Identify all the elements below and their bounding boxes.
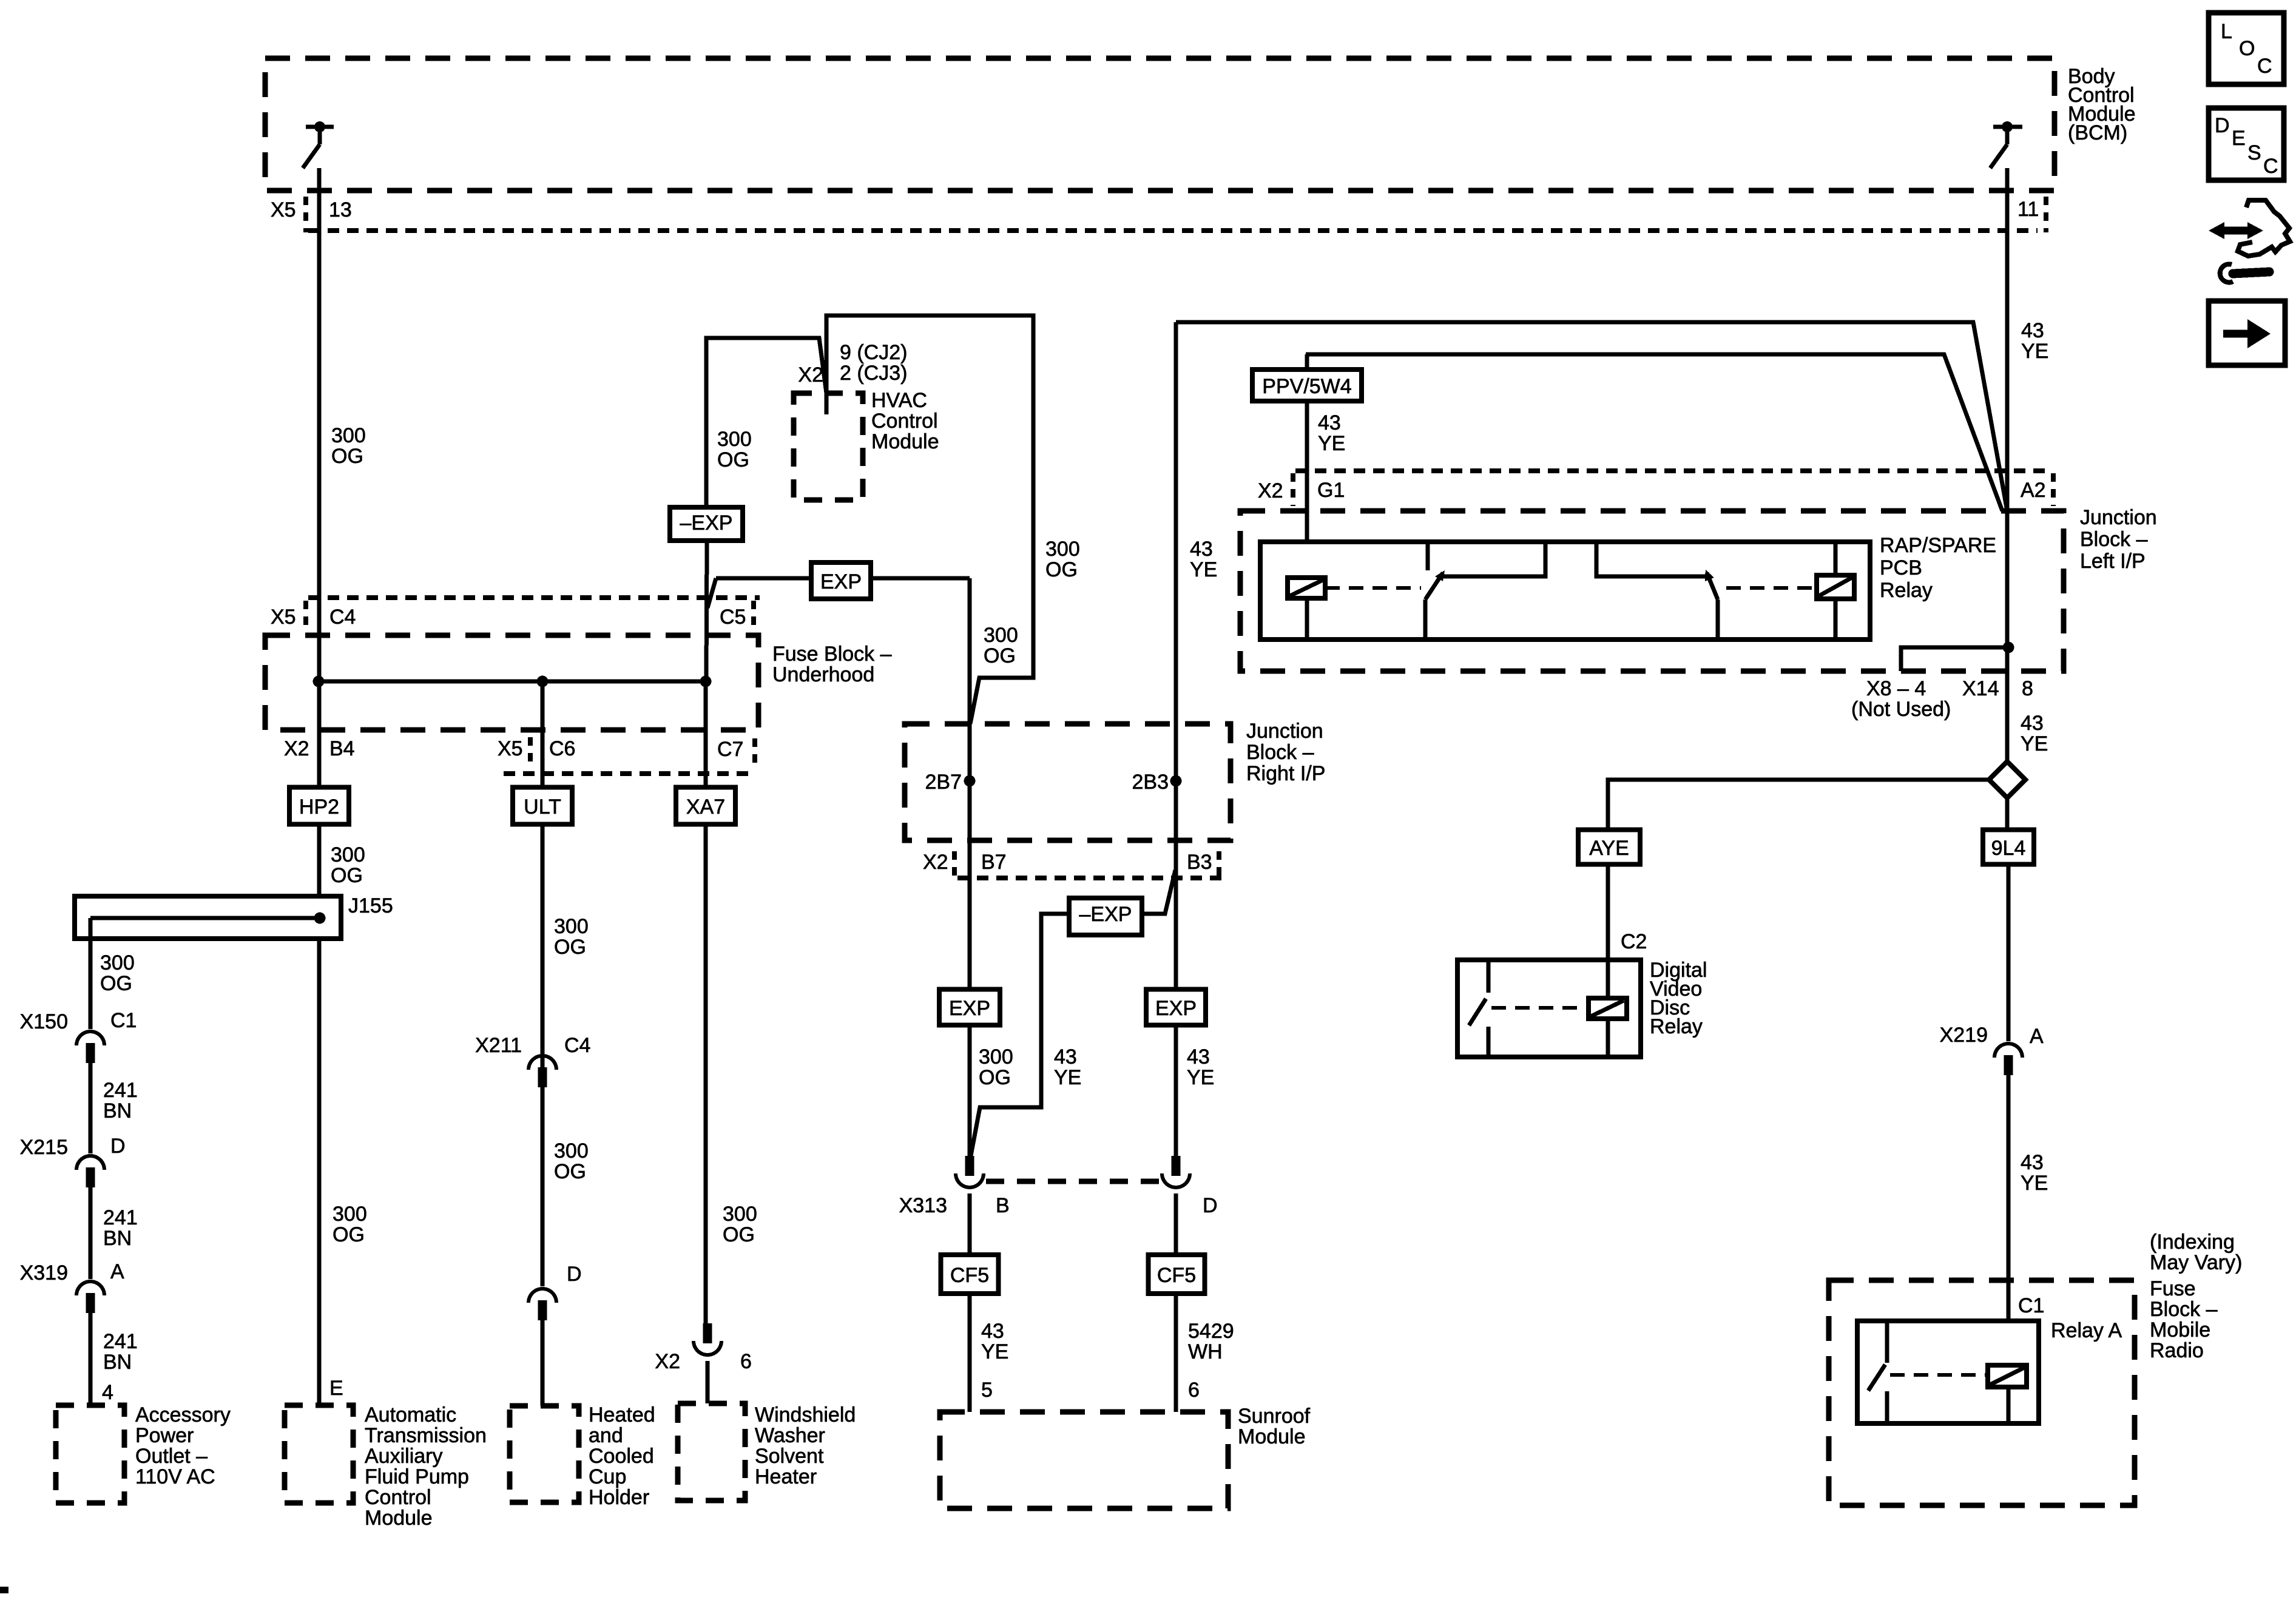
in-line connector X215 pin D bbox=[76, 1156, 104, 1170]
svg-text:5: 5 bbox=[981, 1379, 993, 1402]
svg-text:Fuse: Fuse bbox=[2150, 1277, 2196, 1300]
relay dashed link 2 bbox=[1726, 586, 1817, 590]
wire: B3 branch to -EXP bbox=[1142, 870, 1175, 914]
svg-text:PCB: PCB bbox=[1880, 556, 1922, 579]
svg-text:C1: C1 bbox=[110, 1009, 137, 1032]
svg-text:YE: YE bbox=[2021, 1172, 2048, 1195]
fuse -EXP (lower) bbox=[1069, 898, 1142, 935]
svg-text:X2: X2 bbox=[798, 363, 823, 387]
svg-text:Cooled: Cooled bbox=[589, 1445, 654, 1468]
svg-text:OG: OG bbox=[331, 864, 363, 887]
svg-text:OG: OG bbox=[100, 972, 132, 995]
svg-text:6: 6 bbox=[1188, 1379, 1200, 1402]
relay contact wire 1 bbox=[1443, 542, 1545, 576]
svg-text:BN: BN bbox=[103, 1099, 132, 1122]
svg-text:HVAC: HVAC bbox=[871, 389, 927, 412]
svg-text:X313: X313 bbox=[899, 1194, 947, 1217]
DVD relay coil bbox=[1606, 960, 1610, 998]
fuse CF5 (left) bbox=[941, 1255, 999, 1294]
wire / label 241 BN bbox=[89, 1187, 93, 1279]
fuse AYE bbox=[1578, 830, 1640, 865]
svg-text:D: D bbox=[567, 1263, 582, 1286]
svg-text:Transmission: Transmission bbox=[365, 1424, 487, 1447]
wire: 300 OG from -EXP up over to HVAC pin bbox=[706, 338, 826, 507]
BCM internal switch (right, pin 11) bbox=[2002, 121, 2013, 132]
wire: HVAC pin loop right side 300 OG bbox=[826, 316, 1033, 724]
svg-text:300: 300 bbox=[554, 915, 589, 938]
svg-text:Fuse Block –: Fuse Block – bbox=[772, 643, 892, 666]
wire: feed from RAP relay contact to A2 (upper) bbox=[1176, 322, 2007, 511]
connector row X2 / G1 ... A2 (Junction Block Left I/P) bbox=[1295, 468, 2049, 473]
DVD relay dashed link bbox=[1491, 1006, 1589, 1010]
svg-text:C4: C4 bbox=[329, 606, 356, 629]
svg-text:X14: X14 bbox=[1962, 677, 1999, 700]
svg-text:Module: Module bbox=[365, 1507, 433, 1530]
svg-text:X8 – 4: X8 – 4 bbox=[1866, 677, 1926, 700]
wire: ULT down to heated cup holder bbox=[541, 824, 545, 1286]
svg-text:Left I/P: Left I/P bbox=[2080, 550, 2146, 573]
relay switch 1 bbox=[1426, 542, 1430, 570]
junction dot 2B7 bbox=[964, 775, 976, 787]
svg-text:C: C bbox=[2263, 155, 2278, 178]
svg-text:YE: YE bbox=[1190, 558, 1217, 581]
svg-text:May Vary): May Vary) bbox=[2150, 1251, 2242, 1274]
wire: X313 B to CF5 bbox=[968, 1193, 972, 1255]
svg-text:300: 300 bbox=[717, 428, 752, 451]
svg-text:C7: C7 bbox=[717, 738, 743, 761]
svg-text:Mobile: Mobile bbox=[2150, 1318, 2210, 1342]
svg-text:A: A bbox=[110, 1260, 124, 1283]
svg-text:Relay A: Relay A bbox=[2051, 1319, 2122, 1342]
svg-text:Module: Module bbox=[871, 430, 939, 453]
wire: J155 branch to accessory outlet bbox=[89, 918, 93, 1029]
Fuse Block - Underhood dashed outline bbox=[265, 635, 758, 730]
svg-text:L: L bbox=[2221, 20, 2232, 43]
HVAC Control Module dashed outline bbox=[794, 393, 863, 500]
wire: bus down to XA7 bbox=[704, 681, 708, 789]
svg-text:OG: OG bbox=[554, 936, 586, 959]
Accessory Power Outlet - 110V AC box bbox=[56, 1405, 124, 1503]
svg-text:241: 241 bbox=[103, 1206, 138, 1229]
svg-text:(Not Used): (Not Used) bbox=[1851, 698, 1951, 721]
svg-text:9 (CJ2): 9 (CJ2) bbox=[840, 341, 907, 364]
svg-text:Block –: Block – bbox=[2150, 1298, 2218, 1321]
Relay A dashed link bbox=[1890, 1373, 1988, 1377]
svg-text:X2: X2 bbox=[655, 1350, 680, 1373]
svg-text:OG: OG bbox=[717, 448, 749, 471]
svg-text:300: 300 bbox=[984, 624, 1018, 647]
connector row X5 / 13 bbox=[308, 228, 2038, 233]
svg-text:YE: YE bbox=[2021, 732, 2048, 755]
in-line connector X219 pin A bbox=[1994, 1044, 2022, 1058]
svg-text:E: E bbox=[2232, 127, 2246, 150]
svg-text:A: A bbox=[2030, 1025, 2044, 1048]
svg-text:Heater: Heater bbox=[755, 1465, 817, 1488]
svg-text:(BCM): (BCM) bbox=[2068, 121, 2127, 144]
svg-text:X5: X5 bbox=[271, 198, 296, 221]
svg-text:CF5: CF5 bbox=[1157, 1264, 1196, 1287]
svg-text:AYE: AYE bbox=[1589, 837, 1629, 860]
svg-text:Sunroof: Sunroof bbox=[1238, 1405, 1311, 1428]
svg-text:YE: YE bbox=[981, 1340, 1008, 1363]
svg-text:X319: X319 bbox=[20, 1261, 68, 1284]
svg-text:EXP: EXP bbox=[949, 997, 990, 1020]
fuse CF5 (right) bbox=[1149, 1255, 1205, 1294]
svg-text:110V AC: 110V AC bbox=[135, 1465, 215, 1488]
svg-text:Accessory: Accessory bbox=[135, 1403, 231, 1426]
svg-text:C2: C2 bbox=[1621, 930, 1647, 953]
svg-text:Relay: Relay bbox=[1650, 1015, 1703, 1038]
wire: feed from RAP relay contact to A2 (lower) bbox=[1306, 354, 2002, 511]
relay contact wire 2 bbox=[1596, 542, 1708, 576]
BCM internal switch (left, pin 13) bbox=[314, 121, 325, 132]
Junction Block - Right I/P dashed outline bbox=[905, 724, 1231, 840]
svg-text:B3: B3 bbox=[1187, 851, 1212, 874]
svg-text:(Indexing: (Indexing bbox=[2150, 1230, 2235, 1254]
svg-text:OG: OG bbox=[979, 1066, 1011, 1089]
svg-text:B4: B4 bbox=[329, 737, 355, 760]
svg-text:O: O bbox=[2239, 37, 2255, 60]
fuse HP2 bbox=[289, 788, 349, 825]
svg-text:X2: X2 bbox=[284, 737, 309, 760]
svg-text:Fluid Pump: Fluid Pump bbox=[365, 1465, 469, 1488]
svg-text:Cup: Cup bbox=[589, 1465, 626, 1488]
icon arrow box bbox=[2209, 301, 2285, 365]
svg-text:OG: OG bbox=[333, 1223, 365, 1246]
svg-text:Radio: Radio bbox=[2150, 1339, 2204, 1362]
fuse ULT bbox=[513, 788, 572, 825]
svg-text:2 (CJ3): 2 (CJ3) bbox=[840, 362, 907, 385]
svg-text:OG: OG bbox=[331, 445, 363, 468]
svg-text:Holder: Holder bbox=[589, 1486, 649, 1509]
in-line connector X313 pin D bbox=[1172, 1156, 1181, 1176]
svg-text:X150: X150 bbox=[20, 1010, 68, 1033]
wire: CF5 to sunroof pin 5 / 43 YE bbox=[968, 1294, 972, 1412]
svg-text:300: 300 bbox=[333, 1203, 367, 1226]
svg-text:BN: BN bbox=[103, 1351, 132, 1374]
icon DESC bbox=[2209, 108, 2284, 180]
svg-text:4: 4 bbox=[102, 1381, 113, 1404]
svg-text:Module: Module bbox=[1238, 1425, 1306, 1448]
svg-text:YE: YE bbox=[1054, 1066, 1081, 1089]
svg-text:J155: J155 bbox=[348, 894, 393, 917]
wire: -EXP down through C5 to bus bbox=[706, 541, 707, 681]
svg-text:Outlet –: Outlet – bbox=[135, 1445, 208, 1468]
svg-text:300: 300 bbox=[979, 1045, 1013, 1068]
icon double arrow bbox=[2220, 227, 2252, 235]
wire: X8-4 stub (Not Used) bbox=[1901, 647, 2008, 671]
svg-text:C4: C4 bbox=[564, 1034, 590, 1057]
svg-text:X215: X215 bbox=[20, 1136, 68, 1159]
wire / label 241 BN bbox=[89, 1313, 93, 1405]
RAP/SPARE PCB Relay outline bbox=[1260, 542, 1870, 640]
svg-text:241: 241 bbox=[103, 1330, 138, 1353]
relay coil 2 bbox=[1817, 575, 1854, 599]
svg-text:300: 300 bbox=[723, 1203, 757, 1226]
splice pack J155 bbox=[75, 896, 341, 939]
svg-text:OG: OG bbox=[984, 644, 1016, 667]
svg-text:43: 43 bbox=[2021, 712, 2044, 735]
svg-text:43: 43 bbox=[1190, 538, 1213, 561]
svg-text:241: 241 bbox=[103, 1079, 138, 1102]
Fuse Block - Mobile Radio dashed outline bbox=[1829, 1280, 2135, 1505]
svg-text:C6: C6 bbox=[549, 737, 575, 760]
svg-text:ULT: ULT bbox=[524, 795, 561, 819]
svg-text:300: 300 bbox=[1045, 538, 1080, 561]
svg-text:C1: C1 bbox=[2018, 1294, 2044, 1317]
svg-text:YE: YE bbox=[2021, 340, 2048, 363]
svg-text:D: D bbox=[1203, 1194, 1218, 1217]
fuse EXP (left lower) bbox=[939, 990, 1000, 1025]
svg-text:300: 300 bbox=[331, 424, 366, 447]
Digital Video Disc Relay outline bbox=[1457, 960, 1641, 1057]
DVD relay switch bbox=[1487, 960, 1491, 993]
svg-text:11: 11 bbox=[2017, 198, 2039, 221]
fuse EXP (right lower) bbox=[1146, 990, 1206, 1025]
svg-text:Automatic: Automatic bbox=[365, 1403, 456, 1426]
svg-text:X219: X219 bbox=[1940, 1024, 1988, 1047]
in-line connector X211 pin C4 bbox=[528, 1056, 556, 1070]
wire: 300 OG main left drop to fuse block C4 bbox=[317, 168, 322, 789]
wire: EXP down to 2B7 / X313 B bbox=[968, 578, 972, 1159]
svg-text:300: 300 bbox=[100, 951, 135, 974]
wire: X219 to Relay A coil / 43 YE bbox=[2007, 1075, 2011, 1365]
svg-text:HP2: HP2 bbox=[299, 795, 339, 819]
wire: diamond to 9L4 fuse bbox=[2005, 798, 2010, 831]
fuse PPV/5W4 bbox=[1252, 370, 1362, 401]
svg-text:Power: Power bbox=[135, 1424, 194, 1447]
wire: BCM pin 13 down to HP2 fuse bbox=[317, 168, 322, 789]
wire: 9L4 to X219 bbox=[2007, 864, 2011, 1041]
wire: CF5 to sunroof pin 6 / 5429 WH bbox=[1174, 1294, 1178, 1412]
svg-text:Auxiliary: Auxiliary bbox=[365, 1445, 442, 1468]
HVAC pin stub bbox=[825, 393, 829, 414]
fuse -EXP (upper) bbox=[670, 507, 743, 541]
svg-text:Block –: Block – bbox=[1246, 741, 1314, 764]
svg-text:S: S bbox=[2247, 141, 2261, 164]
svg-text:Heated: Heated bbox=[589, 1403, 655, 1426]
junction dot 2B3 bbox=[1170, 775, 1182, 787]
svg-text:Windshield: Windshield bbox=[755, 1403, 856, 1426]
svg-text:X211: X211 bbox=[475, 1034, 522, 1057]
wire: 43 YE branch down to PPV/5W4 bbox=[1305, 354, 1309, 371]
fuse 9L4 bbox=[1983, 830, 2034, 865]
Relay A switch bbox=[1885, 1321, 1889, 1363]
wire / label 241 BN bbox=[89, 1063, 93, 1153]
svg-text:Control: Control bbox=[365, 1486, 431, 1509]
svg-text:Relay: Relay bbox=[1880, 579, 1933, 602]
connector row X313 dashed line bbox=[986, 1179, 1160, 1184]
icon LOC bbox=[2209, 13, 2284, 84]
svg-text:OG: OG bbox=[723, 1223, 755, 1246]
svg-text:43: 43 bbox=[981, 1320, 1004, 1343]
svg-text:5429: 5429 bbox=[1188, 1320, 1234, 1343]
relay dashed link 1 bbox=[1325, 586, 1421, 590]
wire: EXP feed horizontal bbox=[716, 576, 970, 581]
wire: HP2 to J155 bbox=[317, 824, 322, 1405]
svg-text:OG: OG bbox=[1045, 558, 1078, 581]
wire: BCM pin 11 / 43 YE down to A2 and diamond bbox=[2005, 168, 2010, 762]
wire: PPV/5W4 to G1 bbox=[1305, 401, 1309, 578]
svg-text:X2: X2 bbox=[923, 851, 948, 874]
svg-text:EXP: EXP bbox=[1155, 997, 1197, 1020]
wire: -EXP around to X313 B (43 YE) bbox=[970, 914, 1069, 1159]
wire: AYE to DVD relay C2 bbox=[1606, 864, 1610, 960]
svg-text:OG: OG bbox=[554, 1160, 586, 1183]
connector row X2 / B7 ... B3 bbox=[957, 876, 1226, 880]
svg-text:43: 43 bbox=[1187, 1045, 1210, 1068]
svg-text:X5: X5 bbox=[271, 606, 296, 629]
svg-text:YE: YE bbox=[1318, 432, 1345, 455]
svg-text:RAP/SPARE: RAP/SPARE bbox=[1880, 534, 1996, 557]
svg-text:43: 43 bbox=[1054, 1045, 1077, 1068]
relay coil 1 bbox=[1288, 578, 1325, 598]
svg-text:C: C bbox=[2257, 55, 2272, 78]
svg-text:A2: A2 bbox=[2021, 479, 2046, 502]
svg-text:X5: X5 bbox=[498, 737, 523, 760]
splice diamond bbox=[1989, 761, 2025, 798]
relay switch 2 bbox=[1707, 573, 1718, 599]
Relay A coil bbox=[1988, 1365, 2027, 1387]
svg-text:EXP: EXP bbox=[820, 570, 862, 593]
bus junction dots bbox=[313, 676, 325, 687]
svg-text:XA7: XA7 bbox=[686, 795, 725, 819]
wire: diamond to AYE fuse bbox=[1608, 780, 1989, 831]
svg-text:6: 6 bbox=[740, 1350, 752, 1373]
svg-text:E: E bbox=[329, 1377, 343, 1400]
svg-text:300: 300 bbox=[331, 843, 365, 866]
icon diagnostic squiggle bbox=[2238, 200, 2290, 256]
svg-text:B: B bbox=[996, 1194, 1010, 1217]
svg-text:B7: B7 bbox=[981, 851, 1007, 874]
svg-text:2B7: 2B7 bbox=[925, 771, 962, 794]
svg-text:43: 43 bbox=[1318, 411, 1341, 434]
svg-text:–EXP: –EXP bbox=[1079, 903, 1132, 926]
connector row X5 / C4 ... C5 (Fuse Block) bbox=[308, 595, 760, 600]
wire: X313 D to CF5 bbox=[1174, 1193, 1178, 1255]
svg-text:Control: Control bbox=[871, 410, 938, 433]
svg-text:G1: G1 bbox=[1317, 479, 1345, 502]
wire: XA7 down to washer solvent heater bbox=[704, 824, 708, 1323]
svg-text:43: 43 bbox=[2021, 1151, 2044, 1174]
in-line connector pin D (cup holder) bbox=[528, 1289, 556, 1303]
fuse XA7 bbox=[676, 788, 735, 825]
svg-text:Underhood: Underhood bbox=[772, 663, 874, 686]
Junction Block - Left I/P dashed outline bbox=[1240, 511, 2064, 671]
Body Control Module (BCM) dashed outline bbox=[265, 58, 2055, 191]
svg-text:BN: BN bbox=[103, 1227, 132, 1250]
svg-text:X2: X2 bbox=[1258, 479, 1283, 502]
svg-text:D: D bbox=[110, 1135, 126, 1158]
svg-text:Right I/P: Right I/P bbox=[1246, 762, 1325, 785]
svg-text:9L4: 9L4 bbox=[1991, 837, 2026, 860]
in-line connector X319 pin A bbox=[76, 1281, 104, 1295]
wire: bus down to ULT bbox=[541, 681, 545, 789]
wire: EXP horizontal drop to C5 bbox=[707, 578, 716, 608]
wire: 2B3 drop (43 YE) bbox=[1174, 322, 1178, 1159]
svg-text:Solvent: Solvent bbox=[755, 1445, 824, 1468]
svg-text:13: 13 bbox=[329, 198, 352, 221]
svg-text:–EXP: –EXP bbox=[680, 511, 733, 535]
Sunroof Module dashed outline bbox=[940, 1412, 1228, 1508]
Heated and Cooled Cup Holder box bbox=[510, 1406, 579, 1502]
junction dot X14-8 bbox=[2003, 642, 2014, 653]
svg-text:Junction: Junction bbox=[2080, 506, 2157, 529]
svg-text:PPV/5W4: PPV/5W4 bbox=[1262, 375, 1351, 398]
svg-text:C5: C5 bbox=[720, 606, 746, 629]
icon wrench bbox=[2233, 272, 2269, 274]
svg-text:and: and bbox=[589, 1424, 623, 1447]
Automatic Transmission Auxiliary Fluid Pump Control Module box bbox=[285, 1405, 353, 1503]
page mark bbox=[0, 1587, 8, 1593]
in-line connector X2 pin 6 (washer heater) bbox=[703, 1323, 712, 1343]
in-line connector X150 pin C1 bbox=[76, 1031, 104, 1045]
in-line connector X313 pin B bbox=[965, 1156, 974, 1176]
svg-text:8: 8 bbox=[2022, 677, 2033, 700]
svg-text:300: 300 bbox=[554, 1139, 589, 1163]
svg-text:2B3: 2B3 bbox=[1132, 771, 1169, 794]
svg-text:Block –: Block – bbox=[2080, 528, 2148, 551]
svg-text:43: 43 bbox=[2021, 319, 2044, 342]
fuse block bus wire bbox=[319, 680, 706, 684]
svg-text:WH: WH bbox=[1188, 1340, 1223, 1363]
fuse EXP (top) bbox=[811, 562, 871, 599]
svg-text:Washer: Washer bbox=[755, 1424, 825, 1447]
svg-text:CF5: CF5 bbox=[950, 1264, 989, 1287]
svg-text:YE: YE bbox=[1187, 1066, 1214, 1089]
Windshield Washer Solvent Heater box bbox=[678, 1403, 745, 1501]
svg-text:D: D bbox=[2215, 114, 2230, 137]
Relay A outline bbox=[1857, 1321, 2039, 1423]
svg-text:Junction: Junction bbox=[1246, 720, 1323, 743]
